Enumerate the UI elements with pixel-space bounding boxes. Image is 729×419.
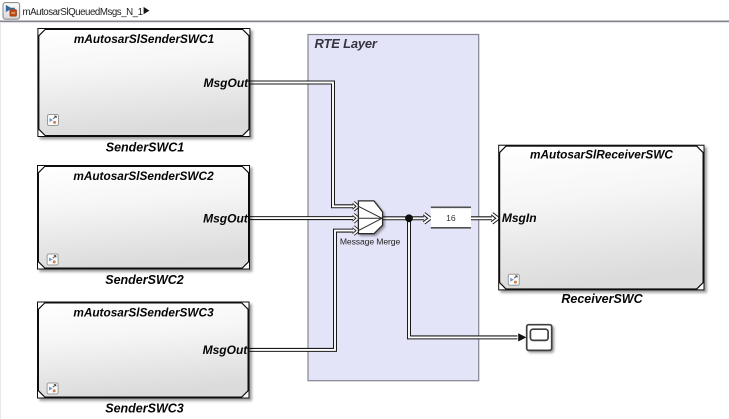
Message Merge block: [358, 201, 382, 234]
SenderSWC2 model badge icon: [47, 254, 58, 265]
svg-text:16: 16: [446, 213, 456, 223]
filled arrowhead at scope input: [518, 333, 526, 341]
RTE Layer label: [315, 36, 378, 51]
svg-text:MsgOut: MsgOut: [204, 76, 250, 90]
Message Merge label: [340, 237, 401, 247]
ReceiverSWC MsgIn port label: [502, 211, 537, 225]
arrowhead at Message Merge input 2: [353, 214, 358, 222]
svg-text:mAutosarSlSenderSWC1: mAutosarSlSenderSWC1: [74, 32, 214, 46]
SenderSWC1 MsgOut port label: [204, 76, 250, 90]
SenderSWC3 name label: [105, 402, 184, 416]
wire from SenderSWC2 MsgOut to Message Merge input 2: [249, 216, 353, 220]
queue block 16: [431, 207, 471, 229]
svg-text:SenderSWC1: SenderSWC1: [106, 141, 185, 155]
svg-text:Message Merge: Message Merge: [340, 237, 401, 247]
svg-text:mAutosarSlQueuedMsgs_N_1: mAutosarSlQueuedMsgs_N_1: [23, 7, 143, 18]
SenderSWC1 title text: [74, 32, 214, 46]
ReceiverSWC model badge icon: [508, 274, 519, 285]
ReceiverSWC block: [499, 146, 703, 290]
arrowhead at ReceiverSWC MsgIn: [492, 214, 498, 223]
svg-text:SenderSWC3: SenderSWC3: [105, 402, 184, 416]
svg-text:SenderSWC2: SenderSWC2: [105, 273, 184, 287]
SenderSWC3 title text: [73, 306, 214, 320]
breadcrumb model icon: [3, 3, 20, 20]
svg-text:MsgIn: MsgIn: [502, 211, 537, 225]
arrowhead at queue block input: [424, 214, 430, 223]
SenderSWC2 title text: [73, 169, 214, 183]
svg-text:mAutosarSlSenderSWC2: mAutosarSlSenderSWC2: [73, 169, 214, 183]
SenderSWC2 name label: [105, 273, 184, 287]
SenderSWC3 model badge icon: [47, 383, 58, 394]
ReceiverSWC name label: [561, 292, 643, 306]
arrowhead at Message Merge input 3: [353, 227, 358, 235]
wire branch from junction down and right to scope: [409, 218, 518, 337]
svg-text:mAutosarSlReceiverSWC: mAutosarSlReceiverSWC: [530, 148, 673, 162]
svg-text:mAutosarSlSenderSWC3: mAutosarSlSenderSWC3: [73, 306, 214, 320]
wire from queue block to ReceiverSWC MsgIn: [471, 216, 492, 220]
wire from SenderSWC1 MsgOut to Message Merge input 1: [249, 83, 353, 207]
wire junction node: [405, 214, 413, 222]
breadcrumb text mAutosarSlQueuedMsgs_N_1: [23, 7, 143, 18]
arrowhead at Message Merge input 1: [353, 202, 358, 210]
scope block: [527, 325, 552, 351]
SenderSWC3 block: [38, 303, 249, 398]
SenderSWC3 MsgOut port label: [203, 343, 249, 357]
ReceiverSWC title text: [530, 148, 673, 162]
SenderSWC2 MsgOut port label: [203, 212, 249, 226]
SenderSWC1 name label: [106, 141, 185, 155]
SenderSWC2 block: [38, 166, 249, 269]
SenderSWC1 block: [38, 29, 249, 136]
breadcrumb arrow: [144, 7, 150, 14]
svg-text:RTE Layer: RTE Layer: [315, 36, 378, 51]
RTE Layer area annotation: [308, 35, 479, 381]
svg-text:MsgOut: MsgOut: [203, 212, 249, 226]
wire from Message Merge output to queue block: [383, 216, 424, 220]
svg-text:MsgOut: MsgOut: [203, 343, 249, 357]
SenderSWC1 model badge icon: [48, 115, 59, 126]
svg-text:ReceiverSWC: ReceiverSWC: [561, 292, 643, 306]
wire from SenderSWC3 MsgOut to Message Merge input 3: [249, 231, 354, 350]
